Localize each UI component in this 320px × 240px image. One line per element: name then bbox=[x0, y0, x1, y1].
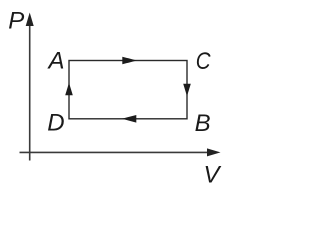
svg-text:A: A bbox=[47, 47, 65, 74]
arrow A to C (top edge, rightwards) bbox=[122, 57, 137, 65]
V axis (horizontal) bbox=[20, 148, 221, 156]
cycle rectangle (process path) bbox=[69, 61, 187, 119]
arrow B to D (bottom edge, leftwards) bbox=[122, 115, 137, 123]
arrow C to B (right edge, downwards) bbox=[183, 84, 191, 97]
svg-text:B: B bbox=[195, 110, 211, 137]
P axis (vertical) bbox=[26, 13, 34, 161]
svg-text:D: D bbox=[47, 110, 64, 137]
P-V diagram: rectangular thermodynamic cycle A-C-B-D bbox=[0, 0, 234, 186]
svg-text:P: P bbox=[8, 8, 24, 35]
svg-text:V: V bbox=[204, 161, 222, 186]
arrow D to A (left edge, upwards) bbox=[65, 83, 73, 96]
svg-text:C: C bbox=[196, 48, 211, 75]
